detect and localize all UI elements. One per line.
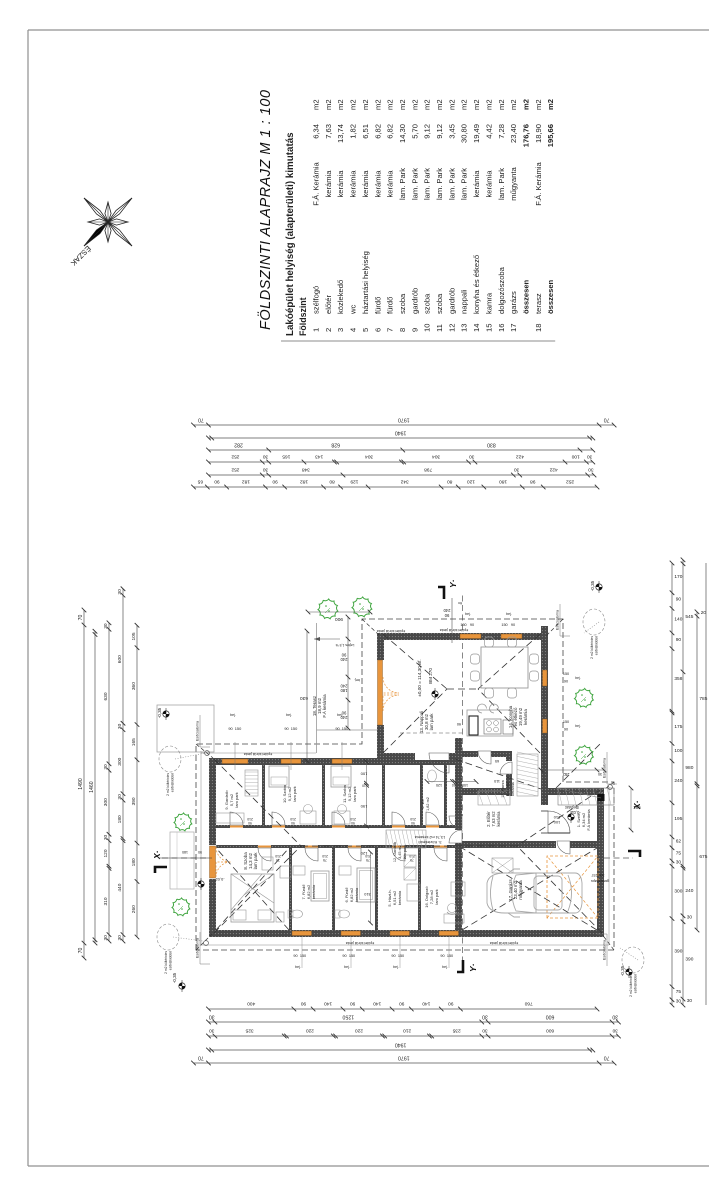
kitchen-nappali dashed boundary [400,732,462,734]
terrace door swing arcs (orange dashed) [383,677,399,711]
haztartasi 5: washer+dryer+shelf [404,868,416,880]
svg-text:90: 90 [341,652,346,657]
dim chain bottom 2 [682,560,684,1005]
svg-text:épület körüli járda: épület körüli járda [346,941,374,945]
svg-text:közlekedő: közlekedő [336,280,345,314]
svg-text:4,42: 4,42 [484,124,493,139]
svg-text:terasz: terasz [534,293,543,314]
svg-text:kerámia: kerámia [496,811,501,827]
valley over entry [455,759,541,789]
svg-text:10: 10 [452,783,456,787]
svg-text:dolgozószoba: dolgozószoba [497,266,506,314]
svg-text:bej.: bej. [506,612,512,616]
svg-text:150: 150 [563,672,569,676]
svg-text:70: 70 [78,615,84,621]
svg-text:30: 30 [103,835,109,841]
gutter downpipes [205,751,210,756]
table left rule [281,340,555,342]
svg-text:kerámia: kerámia [324,170,333,198]
svg-text:lam. Park: lam. Park [460,168,469,200]
svg-text:30: 30 [469,453,475,459]
svg-text:lam park: lam park [429,713,434,731]
svg-text:120: 120 [103,849,109,857]
door room 7 [305,845,318,848]
sink [503,720,513,734]
svg-text:X·: X· [152,850,162,860]
kamra shelf hatched [517,754,538,796]
svg-text:65: 65 [197,478,203,484]
svg-text:2 m2 kültérivies: 2 m2 kültérivies [164,951,168,974]
small dims near terrace [308,611,370,613]
exterior wall: wing north (top) [209,758,216,937]
svg-text:70: 70 [198,416,204,422]
svg-text:Esőcsatorna: Esőcsatorna [556,610,560,630]
svg-text:12. Gardrób: 12. Gardrób [393,842,397,862]
wardrobe room 9 (hatched) [245,770,258,796]
svg-text:30,80: 30,80 [460,124,469,143]
svg-text:-0,35: -0,35 [620,965,625,976]
svg-text:90: 90 [448,1000,454,1006]
svg-text:75: 75 [676,989,682,995]
dim 310 room 6 [370,852,372,923]
svg-text:65: 65 [495,759,499,763]
svg-text:100: 100 [674,748,682,754]
svg-text:235: 235 [452,1027,460,1033]
svg-text:lam park: lam park [352,786,357,801]
svg-text:ÉSZAK: ÉSZAK [69,244,93,268]
svg-text:10: 10 [423,324,432,332]
svg-text:bej.: bej. [286,713,292,717]
kitchen island dark top [469,716,478,735]
svg-text:798: 798 [424,466,432,472]
svg-text:30: 30 [514,466,520,472]
svg-text:lam. Park: lam. Park [410,168,419,200]
svg-text:90: 90 [293,954,297,958]
svg-text:7: 7 [386,328,395,332]
terrace 630 dim line [306,631,308,761]
svg-text:F.Á. Kerámia: F.Á. Kerámia [312,161,321,205]
level marker -0,35 SE [596,581,602,593]
svg-text:1940: 1940 [395,1041,407,1047]
svg-text:90: 90 [564,728,568,732]
svg-text:30: 30 [676,998,682,1004]
door corridor-eloter [455,830,462,843]
svg-text:282: 282 [234,441,243,447]
svg-text:lam. Park: lam. Park [398,168,407,200]
svg-text:30: 30 [482,1013,488,1019]
svg-text:m2: m2 [522,99,531,110]
svg-text:90: 90 [350,1000,356,1006]
window: wing east 3 [332,759,352,764]
svg-text:lam park: lam park [403,845,407,860]
door wc [426,825,439,828]
stove 4 burners [484,719,501,734]
svg-text:Esőcsatorna: Esőcsatorna [603,940,607,960]
svg-text:kerámia: kerámia [354,887,359,902]
svg-text:13,74: 13,74 [336,124,345,143]
svg-text:422: 422 [549,466,557,472]
dining table [481,647,528,688]
dim chain top 3 [108,623,110,941]
svg-text:150: 150 [300,954,306,958]
kitchen counter [467,710,513,736]
dim chain left segs [209,1035,619,1037]
svg-text:140: 140 [373,1000,381,1006]
svg-text:30: 30 [103,935,109,941]
svg-text:lam park: lam park [253,852,258,870]
svg-text:210: 210 [247,817,253,821]
svg-text:Y·: Y· [448,579,458,588]
svg-text:300: 300 [103,798,109,806]
svg-text:m2: m2 [534,99,543,110]
svg-text:100: 100 [360,772,367,777]
svg-text:Esőcsatorna: Esőcsatorna [196,721,200,741]
svg-text:szoba: szoba [423,293,432,314]
svg-text:kerámia: kerámia [484,170,493,198]
svg-text:252: 252 [562,772,570,777]
svg-text:90: 90 [342,954,346,958]
svg-text:9,12: 9,12 [435,124,444,139]
bottom chain line 4 [705,563,707,1005]
exterior wall: kitchen south [541,626,548,805]
svg-text:gardrób: gardrób [410,288,419,314]
svg-text:7,63: 7,63 [324,124,333,139]
svg-text:150: 150 [235,726,242,731]
svg-text:m2: m2 [361,99,370,110]
exterior wall: garage south (bottom) [597,788,604,937]
svg-text:165: 165 [282,453,290,459]
svg-text:105: 105 [131,632,137,640]
svg-text:gardrób: gardrób [447,288,456,314]
svg-text:182: 182 [242,478,250,484]
svg-text:30: 30 [209,1027,215,1033]
dim chain left 1250-600 [209,1021,619,1023]
svg-text:előtér: előtér [324,295,333,314]
section marker Y left [457,960,463,972]
svg-text:garázskapu: garázskapu [591,879,610,883]
svg-text:100: 100 [462,783,468,787]
interior wall: corridor west [213,845,455,848]
svg-text:összesen: összesen [546,279,555,314]
svg-text:300 237: 300 237 [592,873,605,877]
windows: living east [460,634,481,639]
svg-text:210: 210 [553,815,560,820]
interior wall: corridor east [213,825,455,828]
north compass rose [84,198,132,246]
eloter dims 120 10 100 [427,781,476,783]
wall: kamra north [506,751,512,796]
svg-text:esővízkidobó: esővízkidobó [595,636,599,655]
svg-text:30: 30 [117,794,123,800]
svg-text:17: 17 [509,324,518,332]
svg-text:lam. Park: lam. Park [447,168,456,200]
porch roof line to pillar [556,788,601,798]
svg-text:90: 90 [676,637,682,643]
roof overhang dashed outline [196,619,614,950]
wardrobe room 12 (hatched) [386,830,426,848]
dim chain bottom 3 [696,612,698,930]
svg-text:252: 252 [231,466,239,472]
door room 8 [258,845,271,848]
dim chain right 2 [209,474,595,476]
svg-text:bej.: bej. [393,965,399,969]
entry porch hatched paving [558,788,614,805]
dim chain right rooms [209,449,593,451]
svg-text:90: 90 [440,954,444,958]
svg-text:12: 12 [447,324,456,332]
roof ridge and valley dashed lines [214,846,301,933]
svg-text:90: 90 [301,1000,307,1006]
svg-text:180: 180 [117,815,123,823]
svg-text:150: 150 [447,954,453,958]
svg-text:98: 98 [530,478,536,484]
svg-text:kerámia: kerámia [336,170,345,198]
svg-text:210: 210 [290,817,296,821]
svg-text:210: 210 [350,817,356,821]
svg-text:m2: m2 [349,99,358,110]
svg-text:10: 10 [362,783,366,787]
svg-text:Y·: Y· [468,963,478,972]
svg-text:180: 180 [499,478,507,484]
svg-text:bej.: bej. [575,724,581,728]
svg-text:240: 240 [685,888,693,894]
svg-text:műgyanta: műgyanta [509,167,518,201]
svg-text:esővízkidobó: esővízkidobó [634,974,638,993]
svg-text:600: 600 [546,1013,555,1019]
svg-text:11: 11 [435,324,444,332]
svg-text:30: 30 [588,466,594,472]
svg-text:90: 90 [214,478,220,484]
level marker -0,02 room 8 north door [198,878,204,890]
svg-text:190: 190 [360,804,367,809]
dim chain bottom 1 [671,563,673,1005]
svg-text:nappali: nappali [460,289,469,314]
dim chain top inner [136,625,138,937]
door eloter-kitchen [478,751,491,757]
window: wing east 1 [222,759,248,764]
svg-text:épület körüli járda: épület körüli járda [377,629,405,633]
svg-text:440: 440 [117,883,123,891]
svg-text:15. Kamra: 15. Kamra [501,779,505,797]
svg-text:6: 6 [373,328,382,332]
svg-text:300: 300 [117,757,123,765]
svg-text:195: 195 [674,816,682,822]
door room 10 [272,825,285,828]
dim 90 240 fix right [451,598,453,643]
svg-text:900: 900 [335,616,343,622]
svg-text:garázs: garázs [509,291,518,314]
svg-text:szoba: szoba [435,293,444,314]
svg-text:bej.: bej. [337,713,343,717]
trees (scalloped circles) [172,898,190,916]
svg-text:14,30: 14,30 [398,124,407,143]
svg-text:lam park: lam park [234,792,239,807]
bath 6: tub, wc, sink [357,868,375,902]
svg-text:630: 630 [300,695,308,701]
svg-text:m2: m2 [324,99,333,110]
svg-text:m2: m2 [497,99,506,110]
svg-text:Esőcsatorna: Esőcsatorna [196,938,200,958]
svg-text:m2: m2 [373,99,382,110]
section line X-X [158,857,212,859]
svg-text:lam. Park: lam. Park [497,168,506,200]
svg-text:675: 675 [699,854,707,860]
bath 7: tub, wc, sink, washer [311,871,329,901]
svg-text:30: 30 [117,935,123,941]
svg-text:176,76: 176,76 [522,124,531,147]
windows: kitchen south [543,719,548,733]
room 8 north terrace door (orange) [209,845,216,879]
svg-text:9,12: 9,12 [423,124,432,139]
svg-text:90: 90 [228,726,233,731]
svg-text:150: 150 [563,720,569,724]
car in garage [487,869,582,917]
svg-text:m2: m2 [410,99,419,110]
door room 12 [392,825,405,828]
svg-text:390: 390 [674,949,682,955]
armchair room 8 [262,857,273,870]
svg-text:FÖLDSZINTI ALAPRAJZ M 1 : 100: FÖLDSZINTI ALAPRAJZ M 1 : 100 [256,90,274,330]
svg-text:m2: m2 [312,99,321,110]
svg-text:kerámia: kerámia [361,170,370,198]
svg-text:70: 70 [78,948,84,954]
svg-text:110: 110 [494,779,500,783]
svg-text:175: 175 [674,724,682,730]
window labels 90/150 [234,742,236,770]
dim chain left 1940 [209,1049,593,1051]
svg-text:390: 390 [685,956,693,962]
wall: kitchen west [462,751,508,757]
dim 195 below [630,788,632,830]
terrace outline (18 terasz) [317,623,378,753]
svg-text:390: 390 [131,797,137,805]
svg-text:2 m2 kültérivies: 2 m2 kültérivies [166,773,170,796]
svg-text:bej.: bej. [465,612,471,616]
svg-text:14: 14 [472,324,481,332]
svg-text:esővízkidobó: esővízkidobó [169,951,173,970]
dim chain right windows [209,461,593,463]
svg-text:2 m2 kültérivies: 2 m2 kültérivies [629,974,633,997]
section line Y-Y dashed [462,594,464,972]
wall: living west [377,753,462,760]
svg-text:bej.: bej. [230,713,236,717]
svg-text:1940: 1940 [395,429,407,435]
section marker X top [155,867,167,873]
dims 190 10 100 chain [366,762,368,826]
svg-text:kerámia: kerámia [311,884,316,899]
svg-text:3,45 m2: 3,45 m2 [398,845,402,859]
svg-text:F.Á kerámia: F.Á kerámia [586,809,591,831]
section marker X bottom [628,851,640,857]
svg-text:1460: 1460 [89,781,95,793]
wc 4 [428,770,437,782]
svg-text:358: 358 [674,676,682,682]
svg-text:30: 30 [676,860,682,866]
svg-text:fürdő: fürdő [373,297,382,314]
svg-text:esővízkidobó: esővízkidobó [171,773,175,792]
svg-text:210: 210 [275,854,281,858]
living block roof X [383,689,447,753]
eresz corner diagonals [196,933,213,950]
garage shelf with X [492,858,513,873]
svg-text:m2: m2 [447,99,456,110]
svg-text:konyha és étkező: konyha és étkező [472,255,481,314]
dolgozo 16: desk+chair+shelf [444,914,464,923]
sidewalk thin outline [201,751,609,945]
svg-text:348: 348 [302,466,310,472]
level marker -0,02 entry [568,811,574,823]
svg-text:4: 4 [349,328,358,332]
svg-text:lam park: lam park [292,786,297,801]
svg-text:4. Wc: 4. Wc [421,799,425,809]
svg-text:m2: m2 [546,99,555,110]
svg-text:5: 5 [361,328,370,332]
svg-text:szoba: szoba [398,293,407,314]
svg-text:90: 90 [272,478,278,484]
bed room 11 [331,766,351,787]
svg-text:háztartási helyiség: háztartási helyiség [361,251,370,314]
bed room 10 [269,766,289,787]
svg-text:30: 30 [612,1013,618,1019]
svg-text:30: 30 [263,453,269,459]
door kamra [506,761,512,774]
porch pillar (black) [598,794,605,801]
svg-text:lam. Park: lam. Park [435,168,444,200]
svg-text:-0,35: -0,35 [590,580,595,591]
svg-text:m2: m2 [398,99,407,110]
svg-text:m2: m2 [336,99,345,110]
svg-text:16: 16 [497,324,506,332]
dim chain top 4 [122,589,124,941]
opening nappali [415,753,449,760]
svg-text:252: 252 [231,453,239,459]
svg-text:1490: 1490 [78,778,84,790]
svg-text:62: 62 [676,838,682,844]
svg-text:180: 180 [131,858,137,866]
level marker nappali [432,688,438,700]
svg-text:300: 300 [674,888,682,894]
svg-text:20: 20 [701,610,707,616]
rainwater soakaway dashed circles [159,746,181,772]
svg-text:6,51: 6,51 [361,124,370,139]
svg-text:30: 30 [103,623,109,629]
svg-text:fürdő: fürdő [386,297,395,314]
svg-text:1250: 1250 [342,1013,354,1019]
svg-text:120: 120 [360,851,367,856]
svg-text:18: 18 [534,324,543,332]
svg-text:2: 2 [324,328,333,332]
svg-text:30: 30 [598,772,602,776]
svg-text:30: 30 [687,915,693,921]
svg-text:760: 760 [524,1000,532,1006]
svg-text:m2: m2 [460,99,469,110]
interior walls: bedroom wing right column [262,765,265,825]
door: main entrance gap + swing [541,811,548,833]
svg-text:304: 304 [365,453,373,459]
svg-text:240: 240 [674,778,682,784]
svg-text:422: 422 [516,453,524,459]
garden shed pad [157,705,214,752]
svg-text:220: 220 [306,1027,314,1033]
svg-text:170: 170 [674,574,682,580]
svg-text:628: 628 [331,441,340,447]
svg-text:545: 545 [685,614,693,620]
svg-text:342: 342 [400,478,408,484]
windows: west wall (4) [292,931,312,936]
svg-text:8: 8 [398,328,407,332]
svg-text:240: 240 [443,608,451,613]
svg-text:30: 30 [587,453,593,459]
